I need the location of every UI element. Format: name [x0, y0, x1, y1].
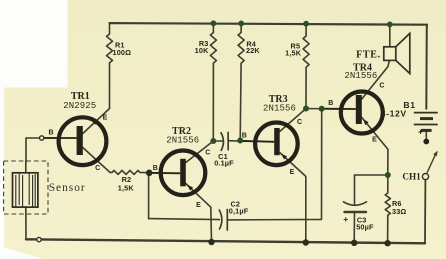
wire sensor vertical inside box — [25, 161, 27, 216]
sensor dashed box — [4, 161, 48, 214]
right rail CH1 to bottom — [424, 180, 426, 243]
white corner top-left — [0, 0, 68, 88]
capacitor C3 plates — [344, 202, 367, 206]
transistor TR2 — [161, 151, 206, 196]
svg-text:C: C — [205, 149, 210, 156]
svg-text:Sensor: Sensor — [49, 182, 86, 194]
svg-text:100Ω: 100Ω — [113, 48, 132, 57]
speaker FTE — [384, 33, 410, 73]
svg-text:6-12V: 6-12V — [381, 109, 407, 119]
TR3 base wire — [240, 141, 274, 142]
transistor TR3 emitter diagonal and down to ground — [280, 153, 306, 243]
junction node C1 / R4 / TR3 base — [237, 138, 243, 144]
svg-text:E: E — [103, 114, 108, 121]
capacitor C1 — [221, 133, 223, 151]
bottom ground rail — [26, 239, 425, 243]
svg-text:CH1: CH1 — [402, 171, 421, 181]
svg-text:2N1556: 2N1556 — [344, 71, 377, 81]
wire sensor bottom to ground rail — [25, 216, 27, 239]
TR2 base wire — [152, 172, 180, 174]
battery bottom terminal dot — [423, 139, 429, 145]
svg-text:+: + — [418, 126, 423, 136]
terminal sensor top — [40, 136, 44, 140]
transistor TR1 — [59, 117, 107, 165]
wire C1 left — [213, 140, 222, 142]
svg-text:B: B — [153, 165, 158, 172]
svg-text:2N1556: 2N1556 — [263, 103, 296, 113]
wire C2 left horizontal — [149, 219, 220, 220]
svg-text:0.1µF: 0.1µF — [214, 158, 234, 167]
svg-text:2N1556: 2N1556 — [166, 135, 199, 145]
svg-text:E: E — [290, 169, 295, 176]
top supply rail — [110, 23, 428, 25]
junction R3 top rail — [211, 20, 217, 26]
white left strip — [0, 87, 4, 259]
svg-text:+: + — [343, 214, 348, 224]
junction R5 top rail — [303, 21, 309, 27]
capacitor C2 — [219, 210, 222, 229]
wire TR2 base node down — [148, 173, 150, 219]
resistor R3 — [210, 23, 216, 141]
svg-text:22K: 22K — [246, 46, 260, 55]
svg-text:0,1µF: 0,1µF — [229, 207, 249, 216]
svg-text:C: C — [379, 83, 384, 90]
junction R4 top rail — [238, 21, 244, 27]
resistor R4 — [238, 24, 244, 141]
svg-text:2N2925: 2N2925 — [63, 101, 96, 111]
wire C2 right horizontal to TR4 base node — [227, 109, 321, 220]
junction node TR2 collector / R3 / C1 — [210, 138, 216, 144]
transistor TR3 collector diagonal to R5 node — [280, 109, 306, 132]
TR4 base wire — [322, 108, 356, 110]
TR1 base wire over circle — [43, 137, 77, 139]
svg-text:50µF: 50µF — [356, 222, 374, 231]
transistor TR4 emitter diagonal down to node — [362, 118, 388, 176]
resistor R5 — [303, 24, 309, 109]
transistor TR2 emitter diagonal and down to ground — [186, 184, 212, 243]
capacitor C3 wires — [353, 175, 355, 243]
svg-text:1,5K: 1,5K — [118, 183, 135, 192]
svg-text:1,5K: 1,5K — [285, 49, 302, 58]
wire C1 right to TR3 base — [228, 140, 254, 143]
junction R6 ground — [384, 240, 390, 246]
switch CH1 open circle — [422, 174, 428, 180]
svg-text:C: C — [95, 165, 100, 172]
switch CH1 blade arrowhead — [433, 151, 438, 157]
wire sensor top to TR1 base — [26, 138, 57, 162]
right rail to battery — [425, 25, 428, 109]
junction node R2 / TR2 base — [146, 170, 153, 177]
white bottom-left wedge — [0, 247, 44, 259]
battery B1 plates — [414, 113, 438, 131]
battery stub — [425, 130, 427, 140]
svg-text:B: B — [48, 129, 53, 136]
junction TR3 emitter ground — [303, 239, 309, 245]
svg-text:C: C — [297, 119, 302, 126]
transistor TR1 emitter diagonal to R1 — [83, 109, 110, 134]
junction node TR3 collector / R5 — [303, 106, 309, 112]
transistor TR1 collector diagonal to R2 — [83, 148, 110, 173]
sensor element — [13, 173, 38, 207]
svg-text:B: B — [242, 133, 247, 140]
svg-text:FTE.: FTE. — [356, 49, 381, 60]
transistor TR3 — [255, 123, 298, 166]
svg-text:E: E — [372, 137, 377, 144]
speaker FTE wire — [389, 24, 391, 46]
junction speaker top rail — [387, 22, 393, 28]
resistor R1 — [107, 23, 113, 108]
transistor TR4 collector diagonal to speaker — [362, 60, 390, 99]
wire node to C3 horizontal — [355, 174, 388, 176]
resistor R2 — [110, 170, 158, 174]
junction node TR4 base / C2 branch — [319, 106, 325, 112]
transistor TR2 collector diagonal — [186, 141, 214, 163]
junction node TR4 emitter / C3 / R6 — [385, 172, 391, 178]
svg-text:B: B — [328, 100, 333, 107]
svg-text:33Ω: 33Ω — [392, 207, 406, 216]
resistor R6 — [385, 175, 390, 243]
terminal sensor bottom — [37, 237, 41, 241]
svg-text:10K: 10K — [195, 46, 209, 55]
junction TR2 emitter ground — [208, 239, 214, 245]
svg-text:E: E — [196, 202, 201, 209]
wire TR3/TR4 base node horizontal — [306, 108, 340, 111]
junction C3 ground — [351, 240, 357, 246]
switch CH1 blade with arrow — [427, 154, 436, 173]
transistor TR4 — [341, 92, 383, 134]
